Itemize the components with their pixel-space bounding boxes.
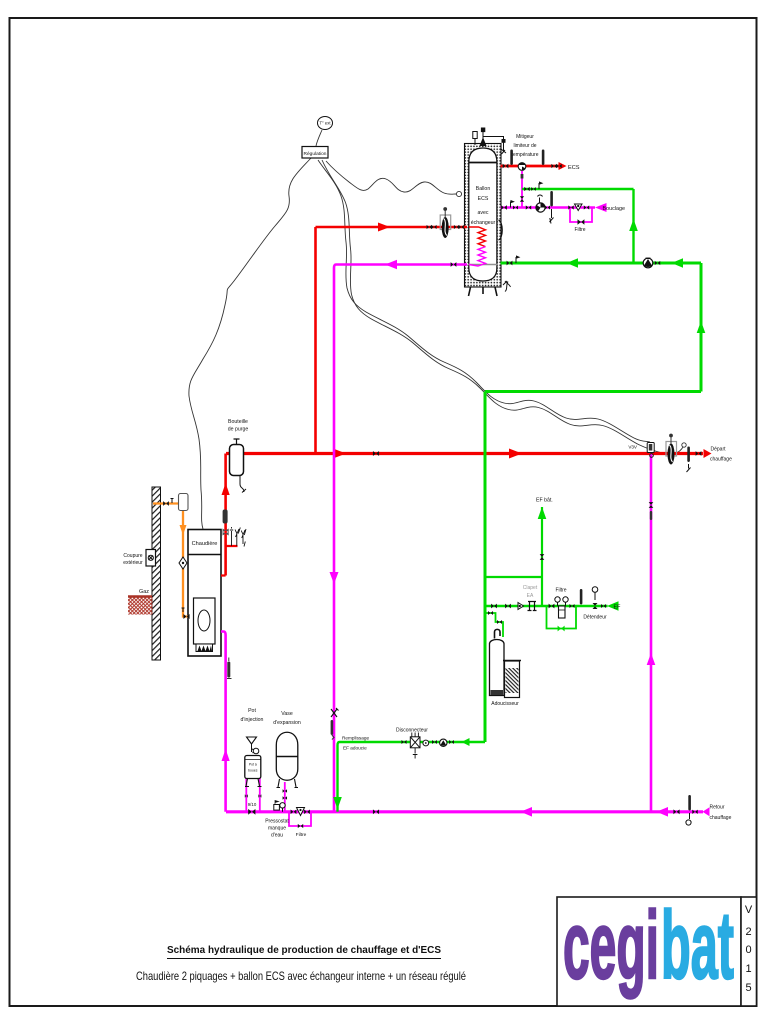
flow arrow on red main right xyxy=(509,449,522,459)
boiler return riser xyxy=(221,632,226,812)
small pump circle xyxy=(440,739,447,746)
svg-text:Filtre: Filtre xyxy=(296,832,307,838)
detendeur xyxy=(593,603,598,609)
svg-text:manque: manque xyxy=(268,826,286,832)
boiler burner window xyxy=(194,598,216,644)
sight glass xyxy=(518,603,524,610)
svg-text:d'injection: d'injection xyxy=(241,717,264,723)
pot body xyxy=(245,756,261,779)
tank heat exchanger coil red part xyxy=(469,227,486,247)
branch valves xyxy=(488,611,493,615)
green upper branch to EF bat riser xyxy=(485,576,542,578)
svg-text:Bouclage: Bouclage xyxy=(603,206,625,212)
EF bat arrow xyxy=(538,507,547,519)
svg-text:Vase: Vase xyxy=(281,711,293,717)
flow arrow on tank cold feed right xyxy=(672,258,684,267)
wire to T ext sensor xyxy=(316,130,322,146)
red boiler stubs xyxy=(221,546,238,576)
depart thermometer xyxy=(687,447,690,463)
sensor circle on departure pump wire xyxy=(682,443,686,447)
mixing valve cold drop xyxy=(521,171,523,208)
tank exchanger return drop xyxy=(334,265,467,812)
svg-text:d'eau: d'eau xyxy=(271,833,283,839)
svg-text:EF adoucie: EF adoucie xyxy=(343,746,367,751)
V3V three way valve xyxy=(647,443,654,453)
svg-text:EF bât.: EF bât. xyxy=(536,498,553,504)
green line pump xyxy=(643,258,653,268)
filtre EF body xyxy=(559,606,566,618)
valve on magenta riser xyxy=(649,502,654,508)
flow arrow on red main left xyxy=(333,449,346,459)
T ext oval sensor xyxy=(318,117,333,130)
green EF inlet line xyxy=(485,605,608,608)
boiler safety group squiggles xyxy=(230,527,246,547)
svg-text:ECS: ECS xyxy=(568,165,580,171)
svg-text:T° ext: T° ext xyxy=(320,121,332,126)
red riser to tank exchanger xyxy=(314,227,317,454)
vase expansion drop xyxy=(284,782,286,812)
red riser from boiler to bouteille xyxy=(224,454,227,576)
tank legs xyxy=(469,287,498,296)
svg-text:d'expansion: d'expansion xyxy=(273,720,301,726)
svg-text:Adoucisseur: Adoucisseur xyxy=(491,701,519,707)
depart arrow xyxy=(704,449,712,458)
gas meter xyxy=(179,494,189,511)
wall (hatched) xyxy=(152,487,161,660)
vase connection unions xyxy=(283,789,287,793)
svg-text:Clapet: Clapet xyxy=(523,585,538,591)
green riser to mixing line xyxy=(632,189,634,263)
cegibat logo box xyxy=(557,897,741,1006)
tank manhole right side xyxy=(499,220,503,240)
small fitting under mitigeur xyxy=(521,174,524,179)
gas valve on wall xyxy=(163,501,169,506)
svg-text:EA: EA xyxy=(527,593,534,599)
boiler label divider xyxy=(188,554,221,556)
svg-text:Pot: Pot xyxy=(248,708,256,714)
svg-text:Filtre: Filtre xyxy=(555,588,566,594)
tank heat exchanger coil magenta part xyxy=(469,247,486,266)
pot injection left leg xyxy=(245,765,247,812)
svg-text:température: température xyxy=(512,152,539,158)
V2015 vertical text xyxy=(745,904,753,994)
flow arrow up on V3V riser xyxy=(647,653,656,665)
flow arrow on retour segment xyxy=(657,807,669,817)
flow arrow up on boiler return riser xyxy=(222,749,230,761)
tank top safety valve group xyxy=(473,128,506,154)
svg-text:extérieur: extérieur xyxy=(123,560,143,566)
green middle horizontal xyxy=(485,390,701,393)
remplissage left arrow xyxy=(462,738,470,746)
tank sensor circle xyxy=(456,191,461,196)
component dark block on magenta riser xyxy=(227,662,230,678)
depart valve pair xyxy=(696,451,702,456)
svg-text:de purge: de purge xyxy=(228,427,249,433)
thermometer on bouclage xyxy=(550,191,553,207)
bottom return main xyxy=(226,810,703,813)
svg-text:5: 5 xyxy=(745,982,751,994)
flow arrow on boiler supply riser xyxy=(222,483,230,495)
thermometer on EF line xyxy=(580,589,583,605)
retour chauffage valve xyxy=(673,809,679,814)
flow arrow up to mixing line xyxy=(629,219,638,231)
thermometer 2 xyxy=(542,150,545,166)
green long vertical xyxy=(484,392,487,743)
depart pump xyxy=(666,434,677,465)
svg-text:1: 1 xyxy=(745,963,751,975)
bouclage pump xyxy=(536,203,545,212)
green right riser xyxy=(700,263,703,392)
valves on upper green line xyxy=(524,187,529,191)
svg-text:Bouteille: Bouteille xyxy=(228,419,248,425)
red main depart line xyxy=(226,452,703,455)
red tank exchanger feed line xyxy=(316,226,468,229)
svg-text:Chaudière 2 piquages + ballon: Chaudière 2 piquages + ballon ECS avec é… xyxy=(136,969,466,983)
svg-text:chauffage: chauffage xyxy=(710,815,732,821)
green EF bat riser xyxy=(541,507,543,606)
gas flow arrow down xyxy=(180,525,187,535)
wire to tank sensor xyxy=(326,161,456,194)
pot leg unions xyxy=(245,795,248,798)
REGULATION WIRES xyxy=(189,130,683,529)
vase legs xyxy=(277,779,299,788)
flow arrow on exchanger feed xyxy=(378,223,390,232)
tank top weld line xyxy=(469,162,497,164)
svg-text:échangeur: échangeur xyxy=(471,220,496,226)
svg-text:limiteur de: limiteur de xyxy=(513,143,536,149)
flow arrow on bottom main xyxy=(521,807,533,817)
gas valve at boiler xyxy=(183,614,189,619)
valve on tank return line xyxy=(451,262,457,267)
svg-text:V: V xyxy=(745,904,753,916)
svg-text:Régulation: Régulation xyxy=(304,151,327,157)
components on tank return drop xyxy=(331,708,339,717)
svg-text:2: 2 xyxy=(745,926,751,938)
pot legs xyxy=(245,779,262,787)
svg-text:Gaz: Gaz xyxy=(139,589,149,595)
bottom main valve near pot xyxy=(248,809,255,815)
flow arrow up on right green riser xyxy=(697,321,706,333)
tank bottom grey line xyxy=(468,264,498,266)
coupure exterieur box on wall xyxy=(146,550,156,567)
disconnecteur body xyxy=(410,737,420,748)
svg-text:bat: bat xyxy=(661,892,734,999)
double valve before ECS arrow xyxy=(551,164,561,168)
green EF to mixing valve line xyxy=(522,188,634,190)
svg-text:Pot à: Pot à xyxy=(249,763,257,767)
boiler flames xyxy=(196,644,213,652)
gaz ground hatched area xyxy=(128,596,153,615)
coupure valve symbol xyxy=(148,555,153,560)
svg-text:Mitigeur: Mitigeur xyxy=(516,134,534,140)
pot funnel xyxy=(247,737,257,744)
boiler body xyxy=(188,530,221,657)
valve on red main xyxy=(373,451,379,456)
retour thermometer xyxy=(688,795,691,811)
clapet EA xyxy=(528,602,537,611)
bouclage bypass valves xyxy=(568,205,573,209)
svg-text:0: 0 xyxy=(745,944,751,956)
Regulation box xyxy=(302,147,328,159)
bottom main valve mid xyxy=(373,809,379,814)
valve at tank ECS outlet xyxy=(503,164,509,169)
svg-text:Coupure: Coupure xyxy=(123,553,142,559)
gas filter diamond xyxy=(179,557,187,569)
svg-text:Chaudière: Chaudière xyxy=(192,541,218,547)
flow arrow down on return drop xyxy=(330,572,339,584)
svg-text:Ballon: Ballon xyxy=(476,186,491,192)
svg-text:Détendeur: Détendeur xyxy=(583,615,607,621)
red ECS outlet line xyxy=(501,165,562,168)
small gauge P xyxy=(423,740,429,746)
bouclage inlet arrow xyxy=(595,203,607,212)
mitigeur mixing valve xyxy=(518,163,526,171)
component dark block on red riser xyxy=(223,510,228,524)
resin tank xyxy=(490,640,505,696)
filtre bypass bottom left xyxy=(289,812,311,826)
green EF filter bypass xyxy=(547,606,577,629)
bouclage filter bypass xyxy=(570,208,592,223)
flow arrow on tank cold feed xyxy=(567,258,579,267)
ECS outlet arrow xyxy=(559,162,567,170)
green tank bottom feed xyxy=(501,262,702,265)
svg-text:Départ: Départ xyxy=(711,447,727,453)
remplissage down arrow xyxy=(333,797,342,809)
bouclage line xyxy=(501,206,596,208)
tank bottom drain xyxy=(503,281,511,292)
wire bundle to pump sensor xyxy=(322,160,683,454)
EF inlet arrow xyxy=(607,601,619,610)
pot injection right leg xyxy=(259,778,261,812)
svg-text:V3V: V3V xyxy=(628,445,638,450)
retour chauffage inlet arrow xyxy=(703,807,710,816)
green remplissage line xyxy=(338,742,486,812)
svg-text:Filtre: Filtre xyxy=(574,227,585,233)
ballon ECS tank insulation xyxy=(465,144,502,288)
svg-text:Remplissage: Remplissage xyxy=(342,736,369,741)
svg-text:EF: EF xyxy=(614,605,622,611)
svg-text:Schéma hydraulique de producti: Schéma hydraulique de production de chau… xyxy=(167,944,441,956)
svg-text:ECS: ECS xyxy=(478,196,489,202)
thermometer xyxy=(510,150,513,166)
svg-text:Pressostat: Pressostat xyxy=(265,819,289,825)
wire to boiler xyxy=(189,158,311,529)
tank bottom green valve xyxy=(507,261,513,266)
tank labels xyxy=(471,186,496,226)
green bypass valve xyxy=(558,626,565,632)
svg-text:9/10: 9/10 xyxy=(248,802,257,807)
svg-text:avec: avec xyxy=(478,210,489,216)
salt tank xyxy=(505,661,520,698)
svg-text:boues: boues xyxy=(248,769,258,773)
wire bundle to V3V xyxy=(318,160,650,442)
EF bat riser valve xyxy=(540,554,545,560)
svg-text:chauffage: chauffage xyxy=(710,457,732,463)
green adoucisseur branch xyxy=(485,613,503,637)
svg-text:Retour: Retour xyxy=(710,805,725,811)
valve after EF bat riser xyxy=(549,604,555,609)
ballon inner vessel xyxy=(469,148,497,281)
flow arrow on exchanger return xyxy=(385,260,397,269)
retour valve pair xyxy=(692,810,697,814)
svg-text:cegi: cegi xyxy=(563,892,659,999)
union on red riser xyxy=(223,529,229,536)
valve on mixer drop xyxy=(520,196,524,201)
V3V return riser xyxy=(650,454,653,812)
